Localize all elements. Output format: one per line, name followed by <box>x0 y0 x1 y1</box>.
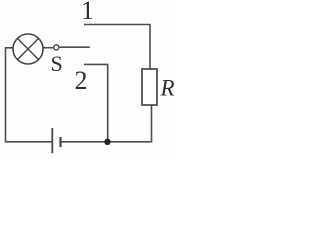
svg-text:S: S <box>50 51 62 76</box>
svg-text:1: 1 <box>81 0 94 25</box>
svg-text:2: 2 <box>75 66 88 95</box>
svg-text:R: R <box>159 76 174 101</box>
